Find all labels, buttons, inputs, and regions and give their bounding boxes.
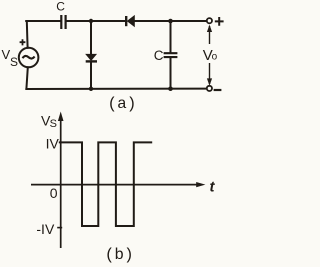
- voltage source VS circle: [19, 48, 39, 68]
- terminal + (open circle): [207, 18, 212, 23]
- svg-text:C: C: [154, 48, 164, 63]
- polarity plus of source: [20, 39, 26, 45]
- svg-text:-IV: -IV: [36, 221, 55, 237]
- capacitor C1 plates: [61, 15, 65, 29]
- wire bottom from left corner to - terminal: [26, 88, 207, 90]
- node junction top of C2: [168, 19, 173, 24]
- svg-text:C: C: [56, 0, 65, 13]
- node junction bottom of C2: [168, 86, 173, 91]
- arrow Vo upper (pointing up to + terminal): [209, 26, 211, 44]
- svg-text:t: t: [210, 179, 216, 196]
- arrow Vo lower (pointing down to - terminal): [209, 63, 211, 84]
- axis VS arrowhead up: [58, 112, 64, 122]
- capacitor C2 plates: [164, 53, 178, 57]
- svg-text:0: 0: [50, 185, 58, 201]
- tick at -1V on axis: [57, 227, 62, 229]
- svg-text:IV: IV: [46, 135, 60, 151]
- terminal - (open circle): [207, 86, 212, 91]
- wire diode D1 branch vertical: [90, 21, 92, 89]
- wire capacitor C2 branch vertical: [170, 21, 172, 89]
- wire top-left from corner to C1: [26, 20, 61, 22]
- wire left vertical source branch: [26, 21, 27, 89]
- label + at output: [215, 17, 224, 26]
- svg-text:(a): (a): [108, 95, 137, 113]
- node junction top of D1: [89, 19, 93, 23]
- node junction bottom of D1: [89, 87, 93, 91]
- waveform VS square wave: [59, 142, 152, 226]
- axis t arrowhead right: [196, 182, 205, 187]
- label - at output: [214, 89, 222, 91]
- axis VS vertical line: [60, 119, 62, 248]
- diode D1 (vertical, pointing down): [86, 54, 96, 60]
- svg-text:S: S: [10, 55, 18, 69]
- diode D2 (series on top wire, pointing left): [125, 16, 127, 26]
- wire top middle C1 to D2: [66, 20, 126, 22]
- wire top right D2 to + terminal: [134, 20, 207, 22]
- voltage source sine symbol: [23, 56, 35, 59]
- svg-text:o: o: [212, 52, 218, 63]
- svg-text:(b): (b): [105, 246, 134, 264]
- axis t horizontal line: [31, 184, 198, 186]
- svg-text:S: S: [50, 118, 57, 130]
